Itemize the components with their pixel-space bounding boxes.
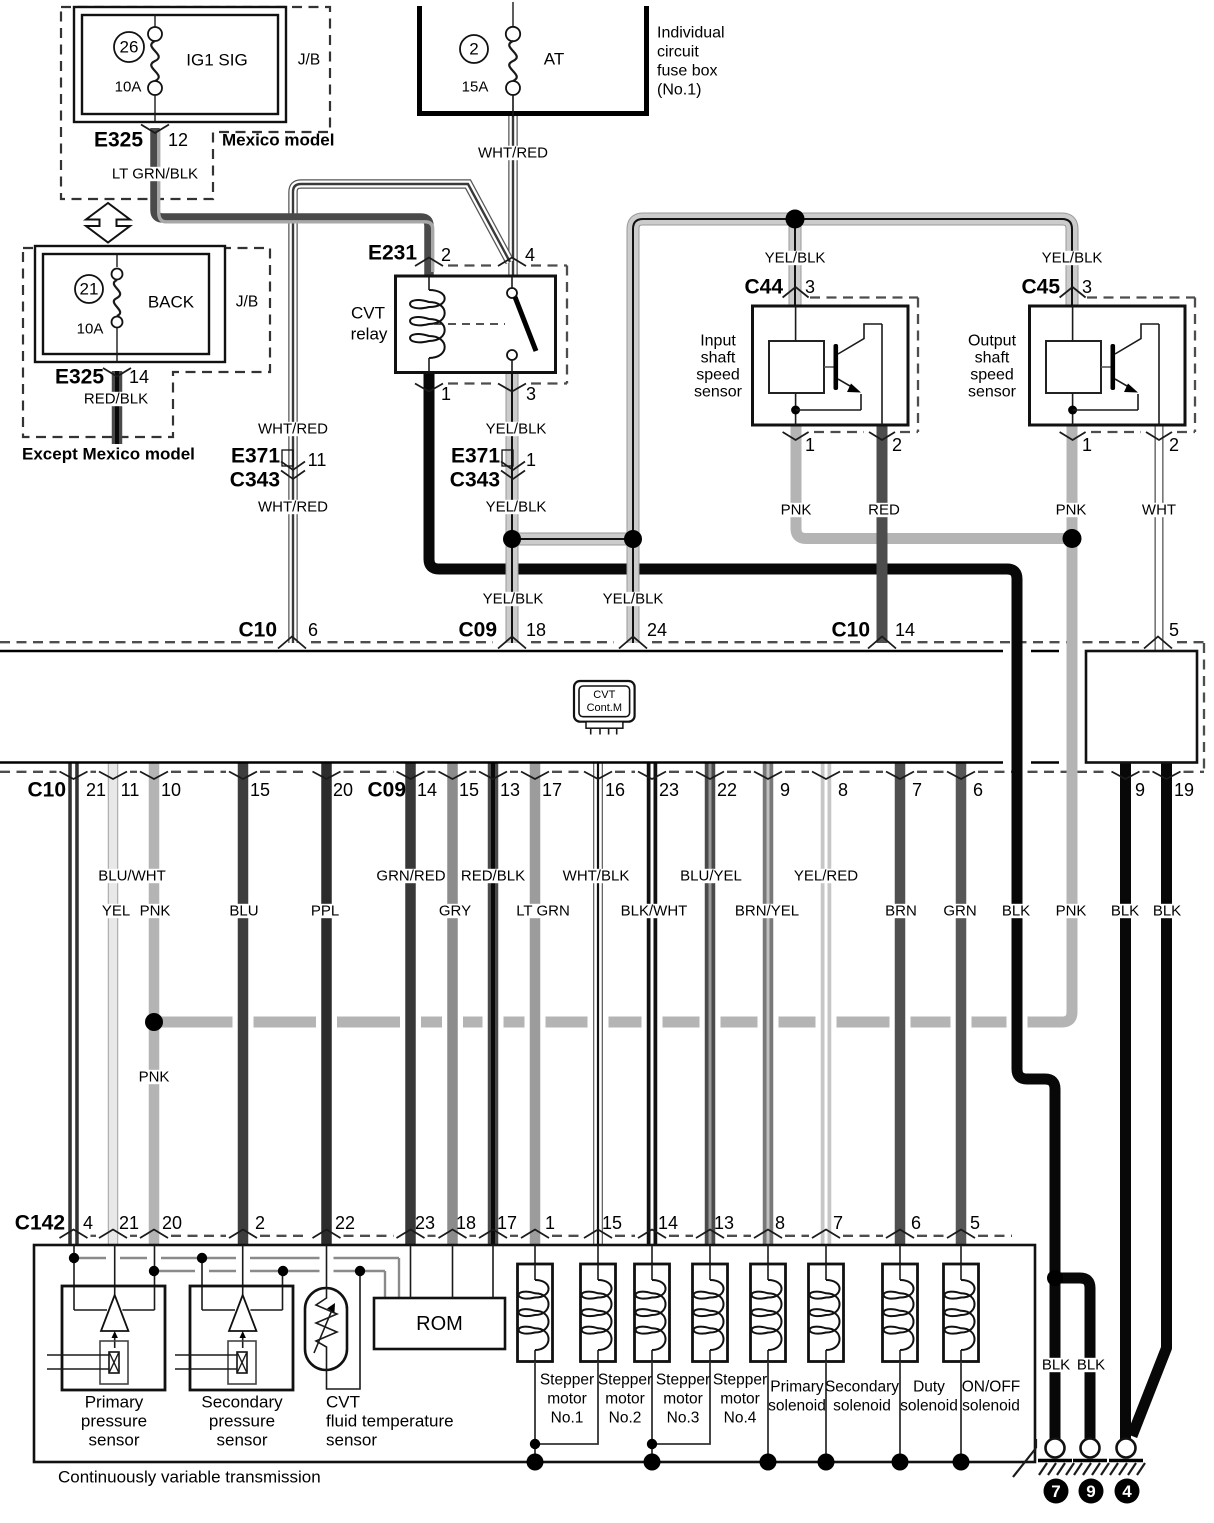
svg-text:Stepper: Stepper — [656, 1372, 710, 1389]
svg-text:YEL: YEL — [102, 903, 130, 920]
svg-text:GRY: GRY — [439, 903, 471, 920]
svg-text:No.3: No.3 — [667, 1410, 700, 1427]
svg-text:speed: speed — [970, 367, 1014, 384]
svg-text:(No.1): (No.1) — [657, 82, 701, 99]
svg-text:motor: motor — [547, 1391, 587, 1408]
svg-text:22: 22 — [335, 1213, 355, 1233]
svg-text:C343: C343 — [450, 469, 500, 492]
svg-text:Stepper: Stepper — [713, 1372, 767, 1389]
svg-text:Secondary: Secondary — [201, 1393, 283, 1412]
svg-text:C10: C10 — [27, 779, 66, 802]
svg-text:solenoid: solenoid — [962, 1398, 1020, 1415]
svg-text:21: 21 — [119, 1213, 139, 1233]
svg-text:BLK/WHT: BLK/WHT — [621, 903, 688, 920]
svg-text:fluid temperature: fluid temperature — [326, 1412, 454, 1431]
svg-text:YEL/BLK: YEL/BLK — [486, 421, 547, 438]
svg-text:C343: C343 — [230, 469, 280, 492]
svg-text:RED/BLK: RED/BLK — [84, 391, 148, 408]
svg-text:20: 20 — [162, 1213, 182, 1233]
svg-text:CVT: CVT — [593, 689, 615, 701]
svg-text:18: 18 — [526, 620, 546, 640]
svg-text:speed: speed — [696, 367, 740, 384]
svg-text:CVT: CVT — [326, 1393, 360, 1412]
svg-text:21: 21 — [80, 280, 99, 299]
svg-text:RED: RED — [868, 502, 900, 519]
svg-text:4: 4 — [525, 245, 535, 265]
svg-text:23: 23 — [415, 1213, 435, 1233]
svg-text:J/B: J/B — [298, 52, 320, 69]
svg-text:WHT: WHT — [1142, 502, 1176, 519]
svg-text:15: 15 — [602, 1213, 622, 1233]
svg-text:YEL/BLK: YEL/BLK — [483, 591, 544, 608]
svg-text:PNK: PNK — [1056, 502, 1087, 519]
svg-text:shaft: shaft — [701, 350, 736, 367]
svg-text:BLK: BLK — [1002, 903, 1030, 920]
svg-text:Primary: Primary — [770, 1379, 824, 1396]
svg-text:PNK: PNK — [781, 502, 812, 519]
svg-text:YEL/BLK: YEL/BLK — [765, 250, 826, 267]
svg-text:pressure: pressure — [209, 1412, 275, 1431]
svg-text:Cont.M: Cont.M — [587, 702, 622, 714]
svg-text:E371: E371 — [231, 445, 280, 468]
svg-text:BLK: BLK — [1153, 903, 1181, 920]
svg-text:E325: E325 — [94, 129, 143, 152]
svg-text:RED/BLK: RED/BLK — [461, 868, 525, 885]
svg-text:3: 3 — [805, 277, 815, 297]
svg-text:sensor: sensor — [326, 1431, 377, 1450]
svg-text:fuse box: fuse box — [657, 63, 717, 80]
svg-text:16: 16 — [605, 780, 625, 800]
svg-text:BRN/YEL: BRN/YEL — [735, 903, 799, 920]
svg-text:PNK: PNK — [140, 903, 171, 920]
svg-text:Primary: Primary — [85, 1393, 144, 1412]
svg-text:9: 9 — [1086, 1482, 1095, 1501]
svg-text:sensor: sensor — [216, 1431, 267, 1450]
svg-text:IG1 SIG: IG1 SIG — [186, 51, 247, 70]
svg-text:23: 23 — [659, 780, 679, 800]
svg-text:WHT/BLK: WHT/BLK — [563, 868, 630, 885]
svg-text:Mexico model: Mexico model — [222, 131, 334, 150]
svg-text:YEL/RED: YEL/RED — [794, 868, 858, 885]
svg-text:C10: C10 — [831, 619, 870, 642]
svg-text:YEL/BLK: YEL/BLK — [486, 499, 547, 516]
svg-text:Output: Output — [968, 333, 1017, 350]
svg-text:E231: E231 — [368, 242, 417, 265]
svg-text:8: 8 — [838, 780, 848, 800]
svg-text:LT GRN/BLK: LT GRN/BLK — [112, 166, 198, 183]
svg-text:24: 24 — [647, 620, 667, 640]
svg-text:2: 2 — [892, 435, 902, 455]
svg-text:BLU: BLU — [229, 903, 258, 920]
svg-text:15: 15 — [250, 780, 270, 800]
svg-text:14: 14 — [895, 620, 915, 640]
svg-text:WHT/RED: WHT/RED — [258, 499, 328, 516]
svg-text:6: 6 — [973, 780, 983, 800]
svg-text:Duty: Duty — [913, 1379, 945, 1396]
svg-text:No.4: No.4 — [724, 1410, 757, 1427]
svg-text:2: 2 — [1169, 435, 1179, 455]
svg-text:21: 21 — [86, 780, 106, 800]
svg-text:2: 2 — [469, 40, 478, 59]
svg-text:LT GRN: LT GRN — [516, 903, 570, 920]
svg-text:sensor: sensor — [968, 384, 1017, 401]
svg-text:WHT/RED: WHT/RED — [258, 421, 328, 438]
svg-text:20: 20 — [333, 780, 353, 800]
svg-text:sensor: sensor — [88, 1431, 139, 1450]
svg-text:Stepper: Stepper — [598, 1372, 652, 1389]
svg-text:11: 11 — [121, 780, 140, 800]
svg-text:17: 17 — [497, 1213, 517, 1233]
svg-text:BRN: BRN — [885, 903, 917, 920]
svg-text:14: 14 — [417, 780, 437, 800]
svg-text:18: 18 — [456, 1213, 476, 1233]
svg-text:shaft: shaft — [975, 350, 1010, 367]
svg-text:10A: 10A — [115, 79, 142, 96]
svg-text:26: 26 — [120, 38, 139, 57]
svg-text:C142: C142 — [15, 1212, 65, 1235]
svg-text:PNK: PNK — [1056, 903, 1087, 920]
svg-text:motor: motor — [663, 1391, 703, 1408]
svg-text:No.1: No.1 — [551, 1410, 584, 1427]
svg-text:4: 4 — [83, 1213, 93, 1233]
svg-text:WHT/RED: WHT/RED — [478, 145, 548, 162]
svg-text:ON/OFF: ON/OFF — [962, 1379, 1021, 1396]
svg-text:Input: Input — [700, 333, 736, 350]
svg-text:motor: motor — [720, 1391, 760, 1408]
svg-text:YEL/BLK: YEL/BLK — [1042, 250, 1103, 267]
svg-text:Stepper: Stepper — [540, 1372, 594, 1389]
svg-text:BACK: BACK — [148, 293, 195, 312]
svg-text:BLU/YEL: BLU/YEL — [680, 868, 742, 885]
svg-text:1: 1 — [441, 384, 451, 404]
svg-text:Individual: Individual — [657, 25, 725, 42]
svg-text:1: 1 — [545, 1213, 555, 1233]
svg-text:CVT: CVT — [351, 304, 385, 323]
svg-text:Except Mexico model: Except Mexico model — [22, 445, 195, 464]
svg-text:Secondary: Secondary — [825, 1379, 899, 1396]
svg-text:pressure: pressure — [81, 1412, 147, 1431]
svg-text:1: 1 — [805, 435, 815, 455]
svg-text:9: 9 — [780, 780, 790, 800]
svg-text:1: 1 — [526, 450, 536, 470]
svg-text:22: 22 — [717, 780, 737, 800]
svg-text:10: 10 — [161, 780, 181, 800]
svg-text:solenoid: solenoid — [768, 1398, 826, 1415]
svg-text:3: 3 — [1082, 277, 1092, 297]
svg-text:13: 13 — [500, 780, 520, 800]
svg-text:circuit: circuit — [657, 44, 699, 61]
svg-text:Continuously variable transmis: Continuously variable transmission — [58, 1468, 321, 1487]
svg-text:3: 3 — [526, 384, 536, 404]
svg-text:5: 5 — [1169, 620, 1179, 640]
svg-text:C45: C45 — [1021, 276, 1060, 299]
svg-text:ROM: ROM — [416, 1313, 463, 1335]
svg-text:2: 2 — [441, 245, 451, 265]
svg-text:19: 19 — [1174, 780, 1194, 800]
svg-text:BLU/WHT: BLU/WHT — [98, 868, 166, 885]
svg-text:7: 7 — [833, 1213, 843, 1233]
svg-text:C09: C09 — [458, 619, 497, 642]
svg-text:GRN/RED: GRN/RED — [376, 868, 445, 885]
svg-text:No.2: No.2 — [609, 1410, 642, 1427]
svg-text:4: 4 — [1122, 1482, 1132, 1501]
svg-text:motor: motor — [605, 1391, 645, 1408]
svg-text:8: 8 — [775, 1213, 785, 1233]
svg-text:J/B: J/B — [236, 294, 258, 311]
svg-text:7: 7 — [912, 780, 922, 800]
svg-text:BLK: BLK — [1042, 1357, 1070, 1374]
svg-text:15: 15 — [459, 780, 479, 800]
svg-text:GRN: GRN — [943, 903, 976, 920]
svg-text:E325: E325 — [55, 366, 104, 389]
svg-text:solenoid: solenoid — [900, 1398, 958, 1415]
svg-text:sensor: sensor — [694, 384, 743, 401]
svg-text:C09: C09 — [367, 779, 406, 802]
svg-text:BLK: BLK — [1111, 903, 1139, 920]
svg-text:14: 14 — [129, 367, 149, 387]
svg-text:solenoid: solenoid — [833, 1398, 891, 1415]
svg-text:YEL/BLK: YEL/BLK — [603, 591, 664, 608]
svg-text:C44: C44 — [744, 276, 783, 299]
svg-text:9: 9 — [1135, 780, 1145, 800]
svg-text:C10: C10 — [238, 619, 277, 642]
svg-text:13: 13 — [714, 1213, 734, 1233]
svg-text:PNK: PNK — [139, 1069, 170, 1086]
svg-text:5: 5 — [970, 1213, 980, 1233]
svg-text:E371: E371 — [451, 445, 500, 468]
svg-text:17: 17 — [542, 780, 562, 800]
svg-text:14: 14 — [658, 1213, 678, 1233]
svg-text:15A: 15A — [462, 79, 489, 96]
svg-text:AT: AT — [544, 50, 564, 69]
svg-text:12: 12 — [168, 130, 188, 150]
svg-text:6: 6 — [308, 620, 318, 640]
svg-text:11: 11 — [308, 450, 327, 470]
svg-text:BLK: BLK — [1077, 1357, 1105, 1374]
svg-text:10A: 10A — [77, 321, 104, 338]
svg-text:2: 2 — [255, 1213, 265, 1233]
svg-text:1: 1 — [1082, 435, 1092, 455]
svg-text:7: 7 — [1051, 1482, 1060, 1501]
svg-text:PPL: PPL — [311, 903, 339, 920]
svg-text:6: 6 — [911, 1213, 921, 1233]
svg-text:relay: relay — [351, 325, 388, 344]
